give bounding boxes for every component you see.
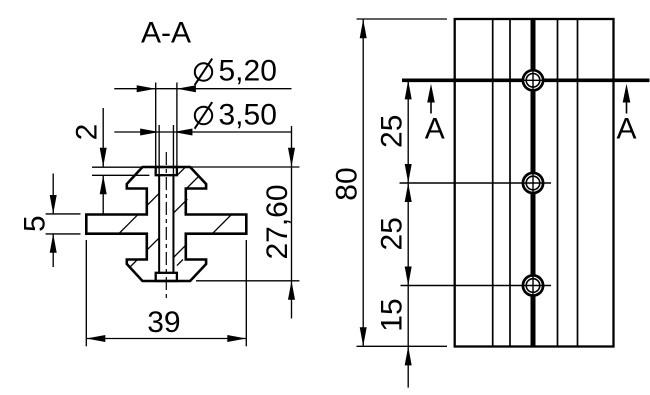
svg-text:5,20: 5,20 [219,55,277,88]
svg-text:25: 25 [376,217,409,250]
svg-text:80: 80 [330,167,363,200]
svg-text:A: A [616,112,636,145]
svg-text:15: 15 [376,298,409,331]
svg-text:39: 39 [147,306,180,339]
svg-text:2: 2 [71,124,104,141]
svg-text:25: 25 [376,115,409,148]
svg-text:3,50: 3,50 [219,99,277,132]
svg-text:5: 5 [19,215,52,232]
svg-text:A-A: A-A [141,17,191,50]
svg-text:A: A [425,112,445,145]
svg-text:27,60: 27,60 [261,184,294,259]
